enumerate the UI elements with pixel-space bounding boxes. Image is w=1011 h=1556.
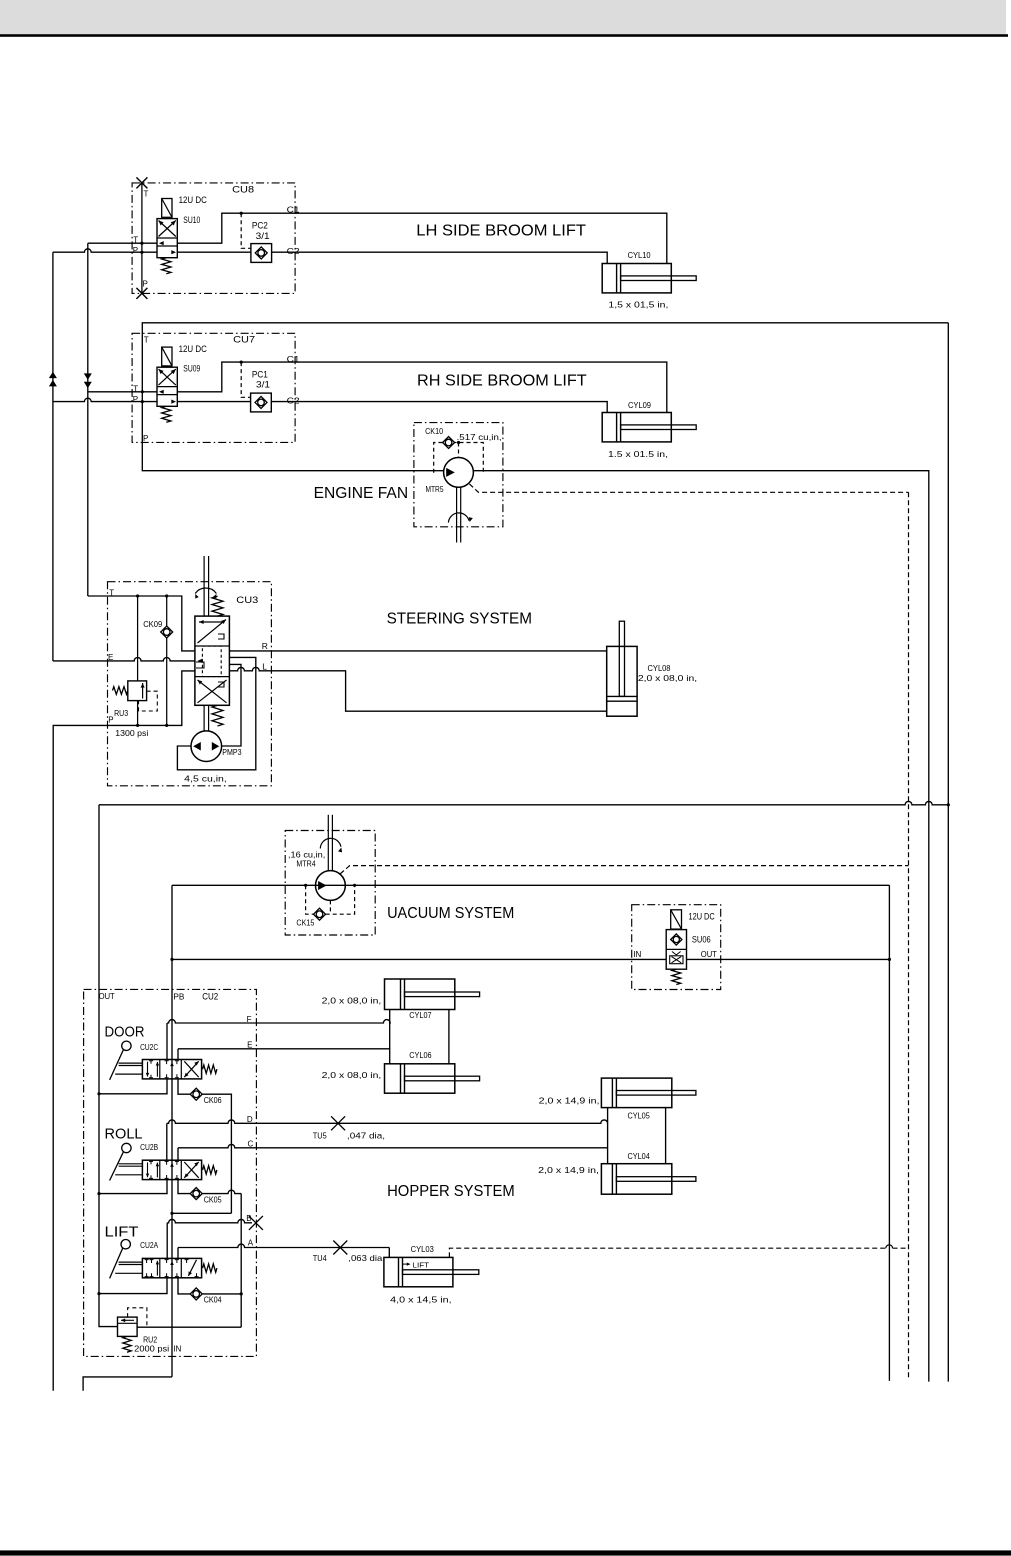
wire D from CV2B to CYL05 (TV5 orifice) [166, 1123, 168, 1160]
solenoid valve SV06 body [666, 930, 686, 970]
svg-text:MTR4: MTR4 [296, 859, 316, 869]
svg-text:CK04: CK04 [204, 1295, 222, 1305]
cylinder CYL05 [601, 1078, 671, 1108]
steering valve CV3 spool [195, 616, 230, 705]
plug X top CV8 [136, 177, 147, 188]
cylinder CYL06 [385, 1064, 455, 1093]
RV3 pilot dashed [139, 691, 158, 711]
cylinder CYL04 [601, 1164, 671, 1195]
flow arrows up on P riser [49, 372, 57, 379]
svg-text:CYL05: CYL05 [628, 1111, 651, 1121]
wire P into steering from bottom supply [53, 671, 195, 1391]
svg-text:RH SIDE BROOM LIFT: RH SIDE BROOM LIFT [417, 373, 587, 390]
plug X on B port [249, 1216, 263, 1230]
pump loop right [221, 664, 241, 746]
svg-text:ROLL: ROLL [105, 1127, 143, 1143]
svg-text:P: P [143, 280, 148, 289]
lever CV2C [110, 1050, 124, 1080]
page header rule [0, 34, 1008, 37]
svg-text:CYL03: CYL03 [411, 1244, 434, 1254]
wire R to CYL08 [229, 650, 606, 652]
valve block CV7 enclosure [132, 333, 295, 442]
frame CYL07-CYL06 [389, 1010, 391, 1064]
svg-text:SU10: SU10 [183, 215, 200, 225]
svg-text:F: F [247, 1015, 252, 1024]
RV2 output wire to chain riser [137, 1326, 241, 1328]
motor MTR4 circle [316, 871, 346, 901]
cylinder CYL10 [602, 264, 671, 293]
svg-text:CU2C: CU2C [140, 1042, 158, 1052]
MTR4 shaft [327, 815, 329, 871]
svg-text:PC1: PC1 [252, 370, 268, 380]
svg-text:TU4: TU4 [313, 1253, 327, 1263]
svg-text:CYL09: CYL09 [628, 400, 651, 410]
power-beyond chain joins PB [172, 1212, 231, 1214]
MTR4 rotation arrow [320, 838, 341, 848]
P riser from CV8 to steering E [52, 252, 54, 661]
svg-text:2,0 x 08,0 in,: 2,0 x 08,0 in, [322, 1070, 382, 1080]
wire P into CV8 (hop at T riser) [53, 249, 157, 252]
junction dot P/gauge CV7 [141, 400, 144, 403]
check valve CK05 line [178, 1180, 190, 1194]
page footer rule [0, 1550, 1011, 1555]
CYL03 dashed return line [449, 1248, 908, 1257]
SV06 out riser (to next sheet) [888, 885, 890, 1381]
wire E into steering (hops over gauge risers) [53, 658, 195, 661]
chain riser CK05 to RV2 line [240, 1194, 242, 1328]
svg-text:T: T [144, 189, 149, 198]
wire E from CV2C to CYL06 [177, 1049, 179, 1060]
svg-text:1.5 x 01.5 in,: 1.5 x 01.5 in, [608, 449, 668, 459]
wire T into CV8 [88, 242, 157, 244]
svg-text:STEERING SYSTEM: STEERING SYSTEM [387, 611, 532, 628]
engine fan supply wire from CV7 P to right side [142, 442, 929, 1381]
motor MTR5 enclosure [414, 423, 503, 527]
hopper valve block CV2 enclosure [84, 989, 257, 1356]
valve SV06 enclosure [632, 905, 721, 990]
lever knob CV2A [121, 1240, 130, 1249]
svg-text:T: T [144, 336, 149, 345]
svg-text:CU2A: CU2A [140, 1240, 158, 1250]
spring below SV06 [672, 969, 681, 984]
svg-text:C: C [248, 1139, 254, 1148]
orifice TV4 [333, 1241, 347, 1255]
svg-text:LIFT: LIFT [413, 1262, 430, 1269]
svg-text:SU06: SU06 [692, 935, 711, 945]
svg-text:CK06: CK06 [204, 1095, 222, 1105]
solenoid SV09 coil [162, 347, 172, 366]
RV2 spring [123, 1336, 131, 1352]
wire C1 from SV10 to CYL10 [177, 213, 667, 263]
wire L to CYL08 (hops over pump loop) [229, 667, 606, 711]
svg-text:CYL07: CYL07 [409, 1010, 432, 1020]
wire IN to SV06 [172, 958, 666, 960]
wire T into CV7 [88, 391, 157, 393]
svg-text:CK15: CK15 [296, 918, 314, 928]
solenoid valve SV09 body [157, 367, 177, 406]
relief valve RV2 [118, 1317, 138, 1336]
wire C from CV2B to CYL04 [177, 1148, 179, 1160]
svg-text:1300 psi: 1300 psi [115, 728, 148, 738]
svg-text:2,0 x 14,9 in,: 2,0 x 14,9 in, [539, 1096, 600, 1106]
svg-text:IN: IN [633, 950, 641, 959]
pilot dashed line to PC1 [241, 362, 250, 397]
svg-text:CK09: CK09 [143, 619, 162, 629]
steering block CV3 enclosure [108, 582, 272, 786]
svg-text:A: A [248, 1238, 254, 1247]
cylinder CYL08 (vertical) [607, 646, 637, 716]
svg-text:D: D [247, 1115, 253, 1124]
vacuum supply wire PB to SV06 junction [172, 884, 889, 886]
svg-text:,047 dia,: ,047 dia, [347, 1131, 385, 1141]
svg-text:2,0 x 08,0 in,: 2,0 x 08,0 in, [322, 996, 382, 1006]
svg-text:E: E [247, 1040, 252, 1049]
wire A from CV2A to CYL03 (TV4 orifice) [177, 1248, 179, 1259]
flow arrow in MTR5 [446, 468, 455, 477]
svg-text:LH SIDE BROOM LIFT: LH SIDE BROOM LIFT [416, 223, 586, 240]
solenoid SV06 coil [671, 910, 682, 929]
wire P through PC1 to C2 / CYL09 [177, 401, 250, 403]
relief valve RV3 [128, 681, 147, 701]
MTR5 case drain dashed [469, 484, 908, 492]
cylinder CYL07 [385, 979, 455, 1010]
flow arrows down on T riser [84, 373, 92, 380]
frame CYL05-CYL04 [607, 1108, 609, 1164]
svg-text:OUT: OUT [701, 950, 717, 959]
cylinder CYL03 [384, 1257, 453, 1286]
svg-text:CYL08: CYL08 [648, 663, 671, 673]
CV2B return to OUT [99, 1180, 167, 1194]
T riser from CV8 to steering [87, 243, 89, 596]
svg-text:OUT: OUT [99, 992, 115, 1001]
CV7 internal T-P line with tank loop to right side [142, 323, 948, 443]
svg-text:L: L [262, 661, 267, 671]
pilot dashed line to PC2 [241, 213, 251, 248]
wire T into steering [88, 596, 195, 651]
junction dot T/gauge CV7 [141, 390, 144, 393]
motor MTR5 circle [444, 458, 474, 488]
spring below SV10 [162, 258, 171, 274]
CV2A return to OUT [99, 1278, 167, 1294]
svg-text:4,0 x 14,5 in,: 4,0 x 14,5 in, [390, 1294, 451, 1304]
solenoid SV10 coil [162, 199, 172, 218]
svg-text:RU3: RU3 [114, 708, 128, 718]
svg-text:P: P [143, 434, 148, 443]
svg-text:R: R [262, 641, 268, 651]
svg-text:CU7: CU7 [233, 335, 255, 345]
hopper OUT return riser [99, 805, 118, 1327]
svg-text:CYL04: CYL04 [628, 1151, 651, 1161]
MTR5 rotation arrow [448, 513, 469, 523]
CYL03 LIFT direction arrow [403, 1263, 409, 1265]
actuator rods CV2C [119, 1062, 143, 1064]
page header gray bar [0, 0, 1006, 34]
CV2C return to OUT [99, 1079, 167, 1094]
svg-text:P: P [108, 715, 113, 724]
svg-text:LIFT: LIFT [105, 1224, 139, 1240]
svg-text:12U DC: 12U DC [689, 912, 716, 922]
pilot-to-open check PC1 [251, 393, 272, 412]
svg-text:C2: C2 [287, 395, 300, 405]
svg-text:CU2B: CU2B [140, 1142, 158, 1152]
svg-text:CYL10: CYL10 [628, 250, 651, 260]
RV3 spring [113, 687, 128, 695]
svg-text:CU3: CU3 [236, 595, 258, 605]
steering column shaft [203, 556, 205, 616]
svg-text:2,0 x 14,9 in,: 2,0 x 14,9 in, [538, 1165, 599, 1175]
svg-text:2,0 x 08,0 in,: 2,0 x 08,0 in, [638, 673, 697, 683]
centering spring bottom [212, 705, 223, 726]
wire C1 from SV09 to CYL09 [177, 362, 667, 412]
svg-text:12U DC: 12U DC [179, 195, 208, 205]
RV2 pilot dashed [128, 1308, 147, 1326]
svg-text:CYL06: CYL06 [409, 1050, 432, 1060]
cylinder CYL09 [602, 413, 671, 442]
case drain dashed right vertical [908, 492, 910, 1378]
svg-text:C2: C2 [287, 246, 300, 256]
svg-text:CK05: CK05 [204, 1195, 222, 1205]
wire P through PC2 to C2 / CYL10 [177, 251, 251, 253]
manual valve CV2A (LIFT) [142, 1258, 201, 1277]
svg-text:CK10: CK10 [425, 426, 443, 436]
relief valve RV3 riser [137, 596, 139, 681]
manual valve CV2C (DOOR) [142, 1060, 201, 1079]
svg-text:2000 psi: 2000 psi [134, 1343, 169, 1353]
tank header wire (hopper box top) [99, 801, 948, 804]
plug X bottom CV8 [136, 288, 147, 299]
svg-text:UACUUM SYSTEM: UACUUM SYSTEM [387, 905, 514, 922]
MTR4 check dashed box [306, 885, 355, 914]
svg-text:SU09: SU09 [183, 364, 200, 374]
svg-text:CU2: CU2 [202, 991, 218, 1001]
solenoid valve SV10 body [157, 219, 177, 258]
tank return right vertical [947, 323, 949, 1382]
pump PMP3 shaft [203, 705, 205, 731]
svg-text:DOOR: DOOR [105, 1024, 145, 1040]
wire F from CV2C to CYL07 [166, 1023, 168, 1060]
svg-text:CU8: CU8 [232, 185, 254, 195]
svg-text:P: P [133, 246, 138, 255]
svg-text:.517 cu,in,: .517 cu,in, [457, 432, 502, 442]
flow arrow in MTR4 [318, 881, 327, 890]
SV06 lower section detail [670, 956, 683, 964]
wire OUT from SV06 [687, 958, 890, 960]
steering rotation arc [195, 588, 216, 593]
CV8 internal T-P gauge line [141, 183, 143, 294]
svg-text:P: P [133, 395, 138, 404]
junction dot T/gauge CV8 [140, 242, 143, 245]
svg-text:3/1: 3/1 [256, 231, 270, 241]
spring below SV09 [162, 406, 171, 422]
wire PB bottom exit to next sheet [83, 1377, 172, 1391]
check valve CK09 on riser [166, 596, 168, 626]
svg-text:ENGINE FAN: ENGINE FAN [314, 485, 409, 502]
svg-text:PC2: PC2 [252, 221, 268, 231]
svg-text:1,5 x 01,5 in,: 1,5 x 01,5 in, [608, 299, 668, 309]
svg-text:,063 dia: ,063 dia [348, 1253, 382, 1263]
actuator rods CV2B [119, 1163, 143, 1165]
svg-text:4,5 cu,in,: 4,5 cu,in, [184, 773, 227, 783]
svg-text:C1: C1 [287, 204, 300, 214]
lever knob CV2C [122, 1041, 131, 1050]
svg-text:C1: C1 [287, 354, 300, 364]
svg-text:PMP3: PMP3 [222, 747, 242, 757]
MTR4 case drain dashed [340, 866, 908, 874]
svg-text:IN: IN [173, 1344, 181, 1353]
check valve CK15 [314, 908, 326, 920]
svg-text:MTR5: MTR5 [426, 484, 444, 494]
check valve CK10 with dashed bypass [434, 443, 484, 473]
pump PMP3 [191, 731, 222, 762]
wire B from CV2A (plugged) [166, 1223, 168, 1259]
wire P into CV7 (hop at T riser) [53, 398, 157, 401]
lever CV2A [110, 1248, 123, 1279]
orifice TV5 [331, 1116, 345, 1130]
motor MTR4 enclosure [285, 831, 375, 936]
svg-text:HOPPER SYSTEM: HOPPER SYSTEM [387, 1183, 515, 1200]
lever knob CV2B [122, 1143, 131, 1152]
pump loop left [177, 657, 255, 769]
actuator rods CV2A [119, 1261, 143, 1263]
junction dot P/gauge CV8 [140, 251, 143, 254]
wire PB supply riser (vacuum to hopper valves) [171, 885, 173, 1377]
svg-text:12U DC: 12U DC [179, 344, 208, 354]
pilot-to-open check PC2 [251, 244, 272, 263]
check valve CK04 line [178, 1278, 190, 1294]
manual valve CV2B (ROLL) [142, 1160, 201, 1179]
svg-text:TU5: TU5 [313, 1131, 327, 1141]
svg-text:3/1: 3/1 [256, 380, 270, 390]
check valve CK06 line [178, 1079, 190, 1094]
centering spring top [212, 596, 223, 616]
svg-text:PB: PB [173, 992, 184, 1001]
lever CV2B [110, 1152, 124, 1181]
valve block CV8 enclosure [132, 183, 295, 294]
MTR5 shaft [456, 487, 458, 542]
